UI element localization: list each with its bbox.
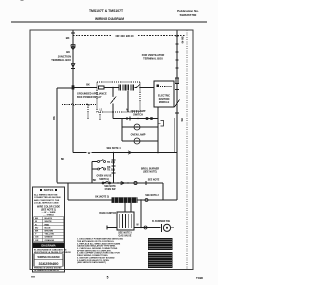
label grounded appliance line1 (77, 93, 107, 96)
label bake ignitor (99, 212, 116, 215)
tick right feed c (175, 51, 178, 53)
svg-text:YELLOW: YELLOW (45, 234, 55, 236)
page number (107, 275, 109, 279)
label BK right feed low (180, 118, 182, 122)
wire lamp bottom rail (122, 140, 158, 142)
right feed switch blade (175, 100, 180, 108)
module label line2 (159, 98, 170, 101)
svg-text:BK: BK (35, 218, 39, 220)
svg-text:LOCAL SERVICE CODE: LOCAL SERVICE CODE (34, 202, 59, 205)
warning block spanish 2 (148, 252, 173, 268)
oven lamp 2 filament (136, 140, 137, 141)
wire lamp feed left (112, 112, 114, 119)
wire lamp rail top (113, 118, 158, 120)
label b burner sw (152, 220, 171, 223)
label junction terminal box line2 (51, 58, 71, 62)
warning block spanish 1 (148, 238, 173, 250)
cluster left leg (91, 162, 93, 184)
svg-text:AND CONFORM TO THE: AND CONFORM TO THE (34, 199, 60, 202)
row2 throw (104, 168, 106, 170)
color code BK (35, 218, 39, 220)
svg-text:BROWN: BROWN (45, 231, 54, 233)
label see note R3 (148, 180, 160, 182)
label N under box (126, 110, 128, 112)
print code mark (31, 276, 35, 277)
note line 9 (77, 257, 115, 259)
svg-text:FIELD WIRING CONNECTIONS.: FIELD WIRING CONNECTIONS. (77, 255, 108, 257)
svg-text:PRINTED IN UNITED STATES: PRINTED IN UNITED STATES (34, 267, 62, 270)
legend footer line1 (34, 267, 62, 270)
spark module dashed lead (160, 86, 172, 88)
cluster row2 wire (92, 168, 97, 170)
hot surface ignitor element (112, 197, 138, 203)
svg-text:OR: OR (35, 240, 39, 242)
svg-text:BK: BK (53, 116, 56, 120)
svg-text:L1: L1 (100, 110, 103, 112)
tick right feed e (175, 67, 178, 69)
wire coil to contact (135, 87, 137, 89)
color code GN (35, 237, 39, 239)
tick right feed b (175, 43, 178, 45)
svg-text:BLUE: BLUE (45, 227, 51, 229)
label ventilator line1 (142, 53, 165, 57)
node S1 top (112, 96, 113, 97)
R3 tick right (145, 181, 147, 185)
tick right feed f (175, 89, 179, 91)
diagram border frame (30, 30, 193, 270)
svg-text:BR: BR (35, 231, 39, 233)
label ventilator line2 (143, 56, 163, 60)
lamp switch contact b (129, 117, 131, 121)
color code Y (35, 234, 37, 236)
oven lamp 1 (134, 124, 140, 130)
label oven lamp (131, 133, 146, 136)
svg-text:EL DIAGRAMA DE CABLEADO SE: EL DIAGRAMA DE CABLEADO SE (34, 248, 67, 251)
svg-text:NOTES: NOTES (44, 188, 54, 192)
row2 blade (100, 167, 104, 169)
node R3 a (117, 182, 118, 183)
spanish header text (41, 243, 55, 247)
svg-text:ORANGE: ORANGE (45, 239, 55, 242)
header rule (11, 21, 207, 23)
wire right leg to R4 (176, 153, 178, 201)
cluster row1 wire (92, 161, 97, 163)
svg-text:BLACK: BLACK (45, 217, 53, 220)
svg-text:BK (NOTE 3): BK (NOTE 3) (95, 197, 109, 199)
wire lamp mid rail (122, 126, 158, 128)
svg-text:BROIL BURNER: BROIL BURNER (141, 167, 160, 170)
label oven valve line1 (96, 175, 111, 178)
wire relay box out (140, 87, 154, 89)
note line 8 (77, 255, 108, 257)
gas valve windings (120, 214, 132, 228)
svg-text:TB 1(B): TB 1(B) (107, 162, 115, 164)
label junction terminal box line1 (58, 55, 71, 59)
color name WHITE (45, 221, 53, 223)
legend text line2 (34, 196, 61, 199)
doc code TO96 (196, 276, 203, 280)
svg-text:OVEN SW: OVEN SW (105, 189, 117, 191)
relay coil K1 (119, 85, 133, 91)
gas valve box (117, 212, 134, 230)
color code BU (35, 227, 39, 229)
wire neutral column N (56, 88, 58, 183)
node R3 b (127, 182, 128, 183)
label gas valve line2 (119, 235, 132, 238)
wire relay drop2 (112, 104, 114, 113)
color name BLUE (45, 227, 51, 229)
svg-text:— W — WIRE: — W — WIRE (42, 212, 57, 214)
tick right feed g (175, 112, 179, 114)
wire into relay box (73, 87, 97, 89)
wire L1 main drop (72, 31, 74, 153)
oven switch pole (102, 182, 104, 184)
wire lamp left leg (121, 119, 123, 142)
svg-text:BK: BK (86, 84, 90, 87)
svg-text:GN: GN (35, 237, 39, 239)
node mid bus lamp leg (157, 152, 159, 154)
lamp switch pole (146, 117, 148, 119)
R4 connector ring (145, 199, 148, 202)
connector on right feed (175, 78, 179, 84)
note line 6 (77, 249, 112, 252)
tick right feed d (175, 59, 178, 61)
svg-text:WHITE: WHITE (45, 221, 53, 223)
main junction connector (72, 85, 75, 89)
svg-text:SWITCH: SWITCH (133, 114, 143, 117)
scan speck top (21, 0, 24, 1)
node contact right (139, 87, 140, 88)
color table grid (34, 217, 64, 242)
console bus tick 2 (87, 103, 90, 106)
oven lamp 2 (134, 138, 140, 144)
svg-text:CONNECTED AS SHOWN: CONNECTED AS SHOWN (34, 196, 61, 199)
terminal tick2 on L1 (71, 68, 75, 70)
svg-text:SEE NOTE 2: SEE NOTE 2 (145, 195, 159, 197)
color name ORANGE (45, 239, 55, 242)
wire dashed top branch right (138, 35, 185, 37)
label OR 40C BR 40 (115, 34, 134, 38)
svg-text:BK: BK (66, 50, 70, 54)
label BK mid (66, 50, 70, 54)
label see note oven line2 (105, 189, 117, 191)
wiring diagram part label (38, 256, 60, 259)
color code OR (35, 240, 39, 242)
console drop at node 3 (99, 112, 101, 120)
valve lead 1 (124, 200, 126, 212)
svg-text:(SEE NOTE 1): (SEE NOTE 1) (41, 210, 56, 212)
legend text line1 (34, 193, 58, 196)
svg-text:BK: BK (93, 179, 97, 182)
label oven valve line2 (99, 178, 109, 181)
svg-text:MODULE: MODULE (159, 101, 170, 104)
wire branch to neutral column (57, 87, 73, 89)
wire right feed drop (176, 31, 178, 153)
wire thermal column (113, 153, 115, 184)
svg-text:WIRE COLOR CODE: WIRE COLOR CODE (37, 206, 61, 209)
svg-text:W: W (88, 151, 91, 155)
oven switch throw (109, 182, 111, 184)
row1 blade (100, 160, 104, 162)
pilot symbol R3 (134, 181, 137, 184)
wire relay internal (104, 87, 119, 89)
spanish line2 (34, 251, 71, 254)
svg-text:BK: BK (180, 118, 182, 122)
row1 pole (98, 161, 100, 163)
label broil line1 (141, 167, 160, 170)
svg-text:OVEN LAMP: OVEN LAMP (131, 133, 146, 136)
note line 10 (77, 259, 110, 262)
svg-text:(SEE NOTE): (SEE NOTE) (143, 171, 157, 174)
wire color code heading1 (37, 206, 61, 209)
svg-text:SEE NOTE: SEE NOTE (148, 180, 160, 182)
switch S1 blade (111, 97, 117, 104)
label oven lamp sw line2 (133, 114, 143, 117)
label grounded appliance line2 (77, 96, 102, 99)
label BK R3 (93, 179, 97, 182)
label bk note R4 (95, 197, 109, 199)
door switch bar (158, 122, 161, 124)
R7 ring (144, 226, 147, 229)
wire R3 to drop (162, 183, 164, 200)
svg-text:GAS VALVE: GAS VALVE (119, 235, 132, 238)
label oven lamp sw line1 (131, 110, 146, 113)
note line 2 (77, 240, 115, 243)
parallel return wire (173, 118, 175, 153)
wiring diagram heading (95, 17, 124, 21)
row2 pole (98, 168, 100, 170)
R6 terminal tick (106, 226, 108, 230)
wire mid bus right (92, 152, 178, 154)
label BK into relay (86, 84, 90, 87)
part number (38, 261, 59, 266)
wire color code heading2 (41, 210, 56, 212)
spark module box (154, 81, 174, 107)
tod tick c (112, 172, 116, 174)
note line 3 (77, 242, 121, 245)
wire R4 (68, 199, 177, 201)
valve lead 2 (130, 200, 132, 212)
color code W (35, 221, 38, 223)
svg-text:BAKE IGNITOR: BAKE IGNITOR (99, 212, 116, 215)
svg-text:TERMINAL BOX: TERMINAL BOX (143, 56, 163, 60)
svg-text:BK: BK (61, 159, 65, 161)
convection motor (163, 224, 170, 231)
legend text line4 (34, 202, 59, 205)
svg-text:TMS107T & TMS107T: TMS107T & TMS107T (89, 9, 124, 13)
color name GREEN (45, 237, 53, 239)
power relay dashed box (97, 82, 140, 112)
spanish header bar (33, 243, 64, 248)
svg-text:BK: BK (107, 167, 111, 169)
wire relay drop (112, 88, 114, 97)
svg-text:ALL WIRING MUST BE: ALL WIRING MUST BE (34, 193, 58, 196)
svg-text:JUNCTION: JUNCTION (58, 55, 71, 59)
oven switch blade (104, 181, 109, 183)
row1 throw (104, 161, 106, 163)
console bus tick 1 (72, 103, 75, 106)
svg-text:BK: BK (66, 36, 70, 40)
label W on mid bus (88, 151, 91, 155)
label BK neutral rotated (53, 116, 56, 120)
svg-text:FOR VENTILATOR: FOR VENTILATOR (142, 53, 165, 57)
color name BLACK (45, 217, 53, 220)
svg-text:W: W (136, 225, 139, 227)
svg-text:GREEN: GREEN (45, 237, 53, 239)
svg-text:BK 40: BK 40 (181, 37, 184, 44)
svg-text:5: 5 (107, 275, 109, 279)
wire R6 stub (107, 227, 117, 229)
wire aux drop in box (127, 91, 129, 112)
svg-text:IGNITION: IGNITION (159, 98, 170, 101)
note line 5 (77, 247, 118, 250)
label broil line2 (143, 171, 157, 174)
node R4 drop1 (124, 199, 125, 200)
key dash row2 (43, 214, 55, 216)
door switch symbol (161, 121, 164, 127)
lamp switch contact a (126, 117, 128, 120)
label see note 4 (106, 147, 121, 150)
fuse F1 on relay input (99, 86, 105, 89)
label BK top (66, 36, 70, 40)
svg-text:TB 2(R): TB 2(R) (107, 169, 115, 171)
key dash row1 (42, 212, 57, 214)
svg-text:- - - SHIELD: - - - SHIELD (43, 214, 55, 216)
valve lead 3 (140, 200, 142, 228)
lamp switch throw (150, 117, 152, 119)
legend text line3 (34, 199, 60, 202)
wire mid bus left (73, 152, 87, 154)
note line 4 (77, 245, 116, 248)
svg-text:WIRING DIAGRAM: WIRING DIAGRAM (38, 256, 60, 259)
pilot center (135, 182, 136, 183)
relay contact blade (137, 85, 141, 88)
svg-text:SEE NOTE: SEE NOTE (104, 186, 116, 188)
terminal arrow on L1 (71, 64, 75, 68)
label L1 under box (100, 110, 103, 112)
legend heading marks (40, 189, 57, 191)
label gas valve line1 (118, 232, 132, 234)
module label line1 (158, 95, 170, 98)
label tod (107, 167, 111, 169)
svg-text:SWITCH: SWITCH (99, 178, 109, 181)
label BK near neutral (61, 159, 65, 161)
color name BROWN (45, 231, 54, 233)
note line 1 (77, 239, 123, 241)
note line 11 (77, 261, 106, 264)
module label line3 (159, 101, 170, 104)
node R4 drop3 (140, 199, 141, 200)
publication number (180, 13, 197, 17)
wire R4 stub up (67, 183, 69, 200)
node R4 drop2 (130, 199, 131, 200)
label row2 (107, 169, 115, 171)
label BK vertical right feed (181, 37, 184, 44)
svg-text:WIRING DIAGRAM: WIRING DIAGRAM (95, 17, 124, 21)
inner dotted margin line (186, 30, 188, 270)
svg-text:SEE NOTE 5: SEE NOTE 5 (118, 232, 132, 234)
svg-text:1. DISCONNECT POWER BEFORE SER: 1. DISCONNECT POWER BEFORE SERVICING (77, 239, 123, 241)
svg-text:TO96: TO96 (196, 276, 203, 280)
svg-text:OVEN LAMP: OVEN LAMP (131, 110, 146, 113)
node mid bus tod (113, 152, 115, 154)
R2 splice arrow (128, 151, 132, 154)
tod tick a (112, 159, 116, 161)
legend outer box (33, 187, 65, 272)
label see note 2 (145, 195, 159, 197)
svg-text:5995267780: 5995267780 (180, 13, 197, 17)
title model numbers (89, 9, 124, 13)
svg-text:ELECTRIC: ELECTRIC (158, 95, 170, 98)
color name RED (45, 224, 50, 226)
label row1 (107, 162, 115, 164)
tod tick b (112, 165, 116, 167)
color name YELLOW (45, 234, 55, 236)
svg-text:SEE NOTE 4: SEE NOTE 4 (106, 147, 121, 150)
oven lamp 1 filament (136, 126, 137, 127)
node lamp rail (137, 118, 138, 119)
svg-text:BOX POWER RELAY: BOX POWER RELAY (77, 96, 102, 99)
connector plug on L1 (71, 45, 75, 47)
wire R3 (57, 182, 163, 184)
motor tail (171, 227, 174, 229)
note line 7 (77, 252, 120, 255)
connector receptacle on L1 (71, 47, 75, 49)
tick right feed a (175, 35, 178, 37)
label W R7 (136, 225, 139, 227)
node R7 lead (140, 227, 141, 228)
motor flange (161, 224, 163, 232)
svg-text:OR 40C BR 40: OR 40C BR 40 (115, 34, 134, 38)
wire lamp right leg (157, 107, 159, 153)
diode-ish symbol R3 (121, 182, 125, 185)
console drop at node 1 (72, 105, 74, 121)
svg-text:Publication No.: Publication No. (177, 9, 199, 13)
node main junction (72, 87, 74, 89)
svg-text:B. BURNER SW: B. BURNER SW (152, 220, 171, 223)
color code BR (35, 231, 39, 233)
dashed console bus (62, 104, 96, 106)
svg-text:RED: RED (45, 224, 50, 226)
legend heading NOTES (44, 188, 54, 192)
svg-text:OVEN VALVE: OVEN VALVE (96, 175, 111, 178)
spark module pin mark (157, 85, 160, 88)
spanish line1 (34, 248, 67, 251)
motor hub (166, 227, 168, 229)
legend footer line2 (34, 269, 59, 272)
terminal tick on L1 (71, 32, 75, 34)
label see note oven line1 (104, 186, 116, 188)
svg-text:GROUNDED APPLIANCE: GROUNDED APPLIANCE (77, 93, 107, 96)
publication no. label (177, 9, 199, 13)
node relay tap (112, 87, 114, 89)
console drop at node 2 (87, 105, 89, 121)
part number box (34, 260, 63, 266)
wire dashed top branch left (73, 35, 111, 37)
wire R7 (134, 227, 161, 229)
svg-text:5. IGNITOR CURRENT MUST EXCEED: 5. IGNITOR CURRENT MUST EXCEED (77, 257, 115, 259)
wiring diagram part box (34, 254, 63, 260)
svg-text:316259400: 316259400 (38, 261, 59, 266)
svg-text:BU: BU (35, 227, 39, 229)
color code R (35, 224, 37, 226)
